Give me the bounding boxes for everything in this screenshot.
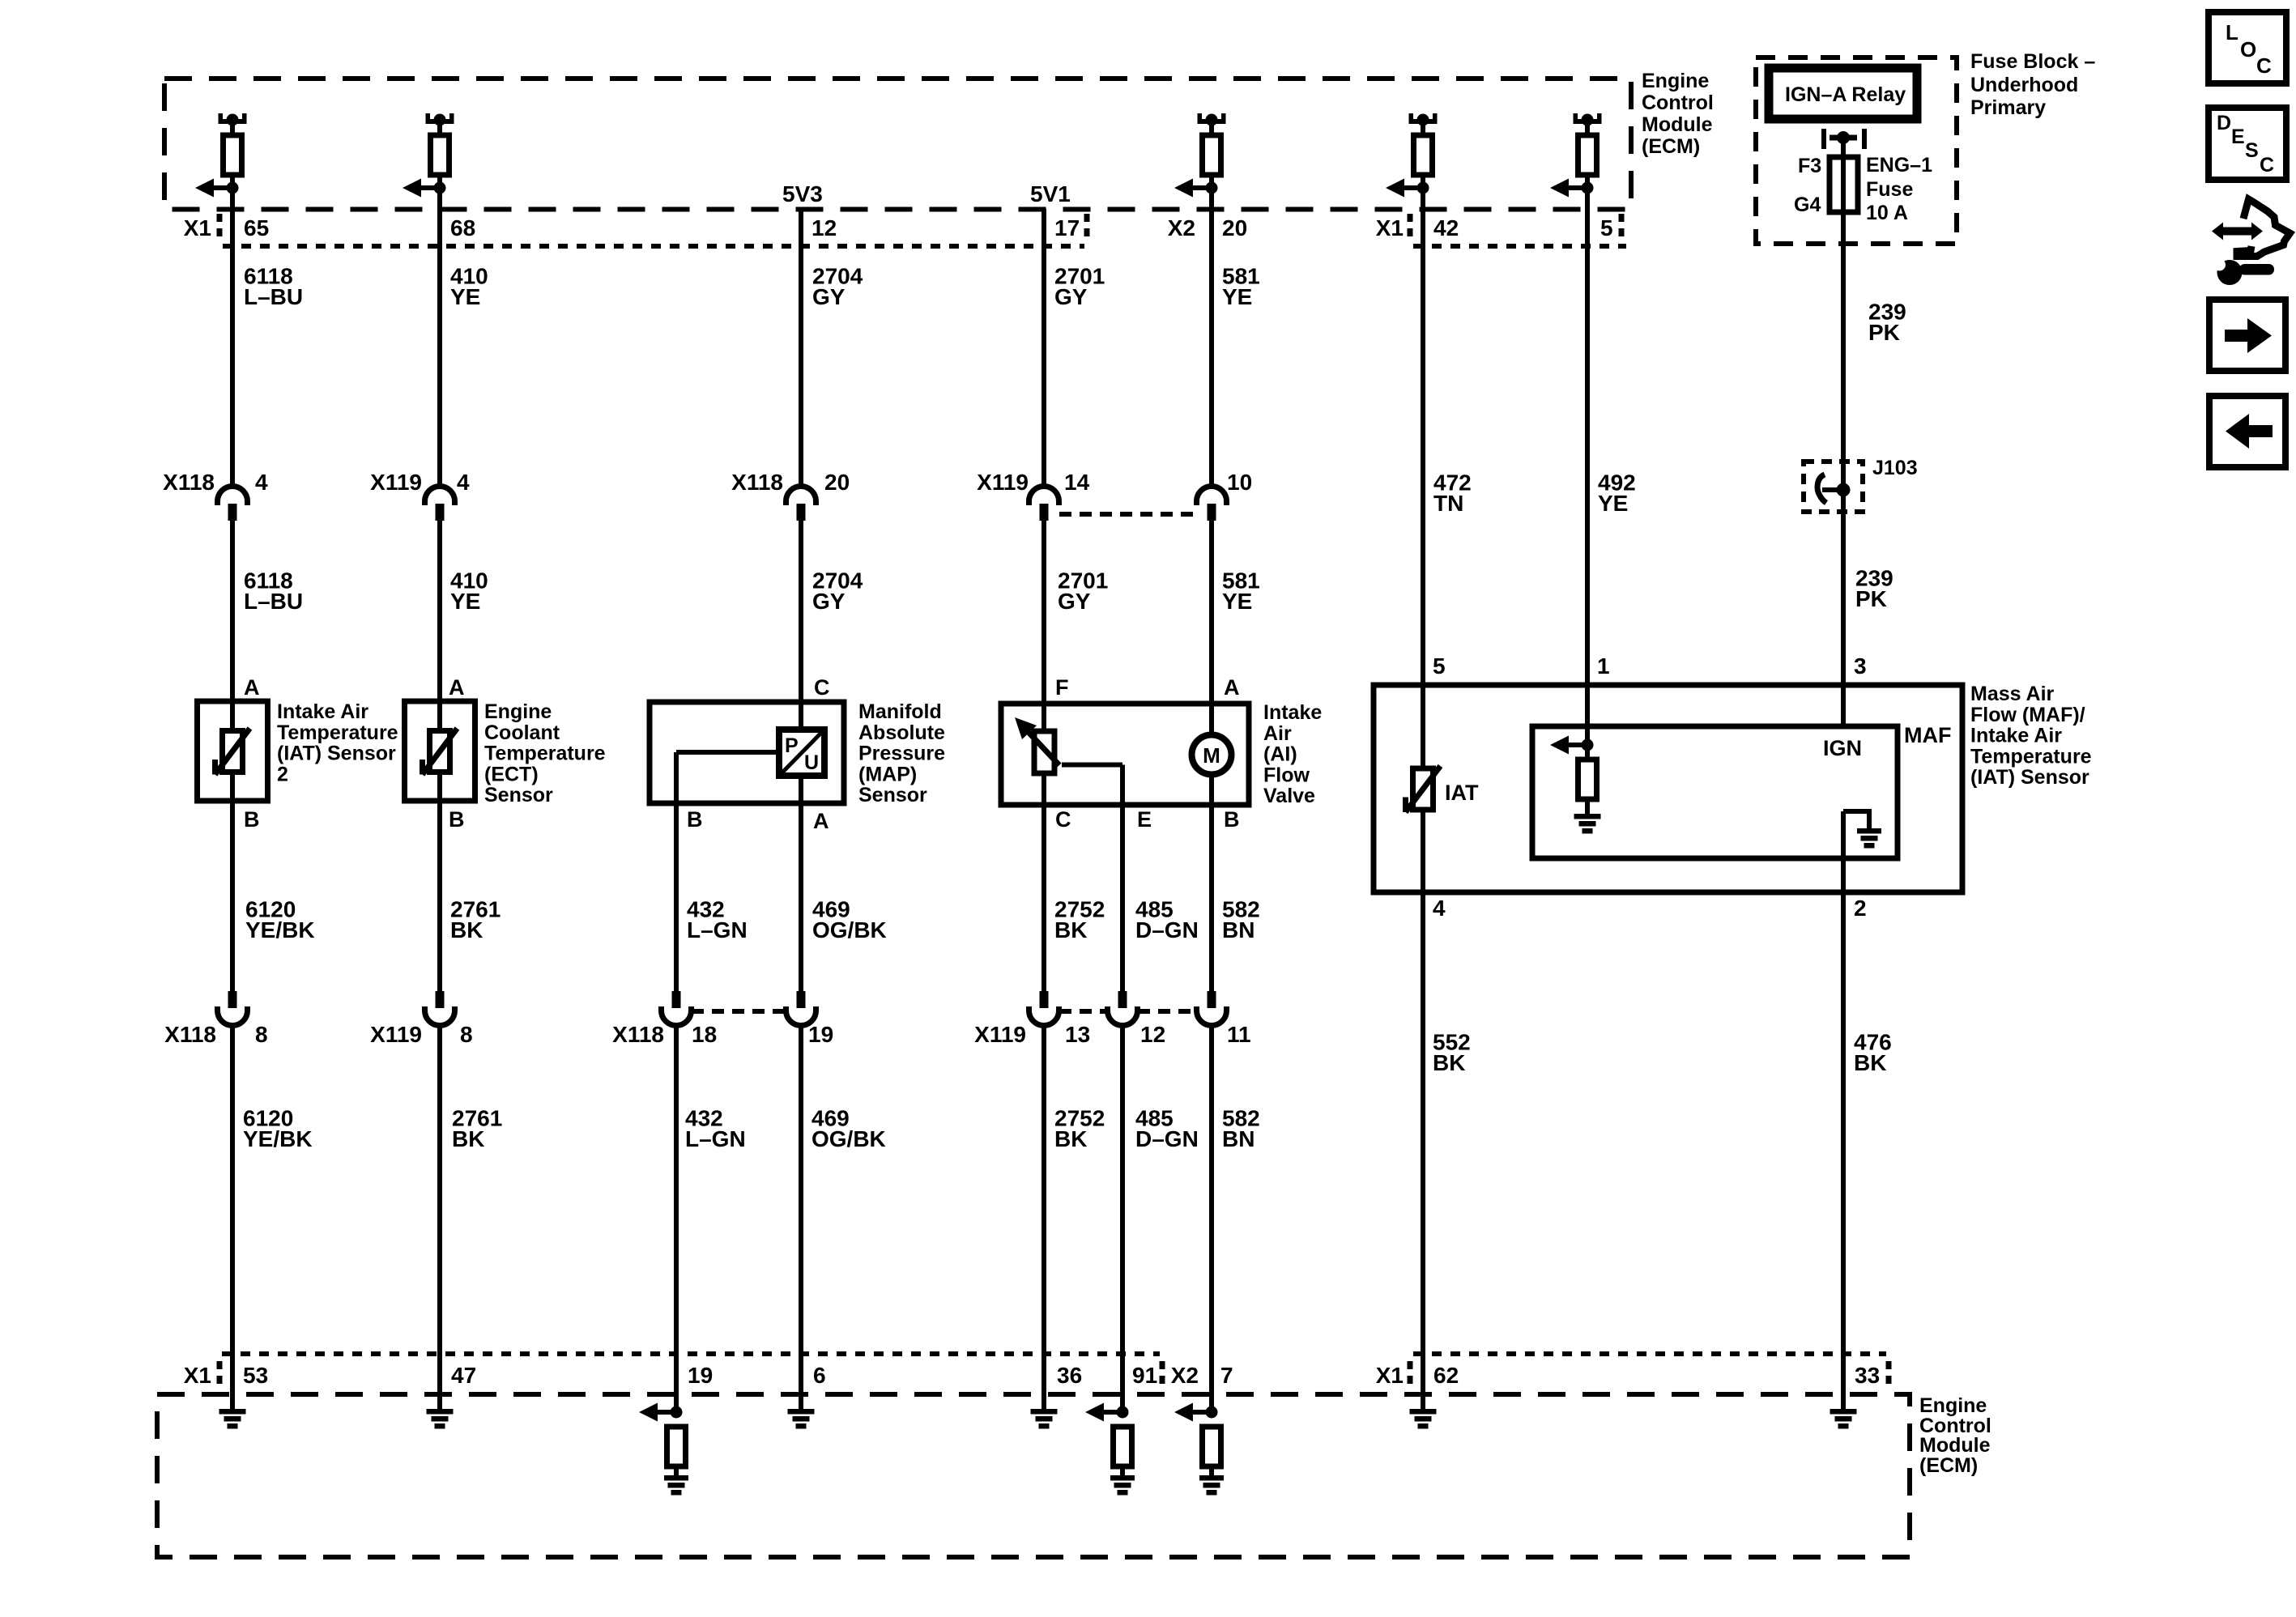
AI valve position sensor rect <box>1034 731 1054 773</box>
svg-text:BK: BK <box>1433 1050 1465 1075</box>
ground at ECM pin 6 <box>788 1409 815 1429</box>
MAF inner IGN box <box>1532 726 1898 858</box>
ECM pin 65 terminal fork <box>219 113 247 126</box>
wire 469 OG/BK: conn 19 to ECM pin 6 <box>799 1026 803 1412</box>
svg-text:Sensor: Sensor <box>858 784 927 806</box>
wire resistor to ground pin 19 <box>674 1466 679 1476</box>
svg-text:Control: Control <box>1642 91 1714 114</box>
inline connector X119-4 <box>425 487 455 521</box>
svg-text:Manifold: Manifold <box>858 700 942 723</box>
inline connector X118-18 <box>662 991 692 1026</box>
wire 492 YE: resistor to MAF IGN resistor <box>1585 175 1590 760</box>
ground below resistor pin 7 <box>1199 1475 1224 1496</box>
svg-text:12: 12 <box>1140 1022 1165 1047</box>
svg-text:Air: Air <box>1263 722 1292 745</box>
ground at ECM pin 33 <box>1830 1409 1857 1429</box>
svg-text:BK: BK <box>450 917 483 943</box>
service icon: double arrow, panel outline, wrench <box>2212 223 2263 240</box>
connector tick at x=2002 (top) <box>1619 214 1625 242</box>
connector tick at x=2332 (bottom) <box>1886 1361 1892 1389</box>
svg-text:(ECM): (ECM) <box>1642 135 1700 158</box>
svg-text:X1: X1 <box>184 215 211 240</box>
connector tick at x=1741 (bottom) <box>1408 1361 1413 1389</box>
off-page arrow at ECM pin 65 <box>195 179 239 198</box>
wire 410 YE: X119-4 to ECT sensor <box>437 521 442 731</box>
svg-text:12: 12 <box>811 215 837 240</box>
svg-text:(IAT) Sensor: (IAT) Sensor <box>1970 766 2089 789</box>
connector tick at x=1741 (top) <box>1408 214 1413 242</box>
svg-text:L: L <box>2226 20 2238 45</box>
svg-text:6: 6 <box>813 1363 826 1388</box>
J103 splice symbol <box>1817 474 1826 503</box>
svg-text:A: A <box>813 809 829 833</box>
thermistor IAT inside MAF <box>1406 766 1441 812</box>
J103 splice dashed box <box>1804 462 1863 512</box>
off-page arrow inside MAF IGN box <box>1550 736 1594 755</box>
svg-text:Absolute: Absolute <box>858 721 945 744</box>
svg-text:3: 3 <box>1854 653 1867 679</box>
svg-text:Fuse: Fuse <box>1866 178 1913 201</box>
wire 432 L-GN: X118-18 to ECM pin 19 <box>674 1026 679 1413</box>
connector X1 fine dotted line (top, pins 42-5) <box>1413 244 1626 249</box>
wire stub pin 65 <box>230 124 235 135</box>
off-page arrow at ECM pin 42 <box>1386 179 1429 198</box>
svg-text:C: C <box>2256 53 2272 78</box>
svg-text:GY: GY <box>1054 284 1088 309</box>
resistor inside ECM at pin 20 <box>1203 135 1221 175</box>
svg-text:Engine: Engine <box>1642 70 1709 92</box>
relay output junction dot <box>1837 131 1850 144</box>
wire MAP internal to pin B <box>676 750 779 755</box>
Intake Air Temperature (IAT) Sensor 2 box <box>198 701 268 801</box>
svg-text:47: 47 <box>451 1363 476 1388</box>
svg-text:TN: TN <box>1433 491 1463 516</box>
svg-text:53: 53 <box>243 1363 268 1388</box>
svg-text:C: C <box>1055 807 1071 832</box>
wire stub pin 20 <box>1209 124 1214 135</box>
svg-text:IAT: IAT <box>1445 781 1479 805</box>
wire 485 D-GN: AI valve E to conn 12 <box>1120 765 1125 992</box>
svg-text:(IAT) Sensor: (IAT) Sensor <box>277 743 396 765</box>
svg-text:BK: BK <box>1854 1050 1886 1075</box>
ground at ECM pin 36 <box>1031 1409 1058 1429</box>
resistor inside ECM at pin 42 <box>1414 135 1433 175</box>
wire 239 PK: relay through fuse and J103 to MAF inner box <box>1841 138 1846 726</box>
svg-text:17: 17 <box>1054 215 1080 240</box>
resistor inside ECM at pin 65 <box>224 135 242 175</box>
svg-text:(ECT): (ECT) <box>484 763 539 785</box>
svg-text:D: D <box>2217 112 2231 134</box>
inline connector conn-10 <box>1197 487 1227 521</box>
svg-text:GY: GY <box>1058 589 1091 614</box>
svg-text:B: B <box>1224 807 1240 832</box>
ECM pin 5 terminal fork <box>1574 113 1602 126</box>
ECM pin 20 terminal fork <box>1198 113 1226 126</box>
ground at ECM pin 53 <box>219 1409 246 1429</box>
off-page arrow at ECM pin 7 <box>1174 1403 1218 1422</box>
svg-text:B: B <box>449 807 465 832</box>
dashed link X118-18 to 19 <box>692 1009 786 1014</box>
svg-text:GY: GY <box>812 284 846 309</box>
resistor at ECM pin 19 <box>667 1427 686 1466</box>
wire resistor to ground pin 7 <box>1209 1466 1214 1476</box>
svg-text:10 A: 10 A <box>1866 202 1908 224</box>
svg-text:4: 4 <box>255 470 268 495</box>
svg-text:X2: X2 <box>1171 1363 1199 1388</box>
off-page arrow at ECM pin 19 <box>639 1403 683 1422</box>
svg-text:36: 36 <box>1057 1363 1082 1388</box>
inline connector conn-19 <box>786 991 816 1026</box>
off-page arrow at ECM pin 68 <box>403 179 446 198</box>
svg-text:S: S <box>2245 139 2259 162</box>
svg-text:E: E <box>2231 126 2245 148</box>
svg-text:YE: YE <box>1222 284 1252 309</box>
svg-text:PK: PK <box>1855 586 1887 611</box>
svg-text:8: 8 <box>460 1022 473 1047</box>
svg-text:8: 8 <box>255 1022 268 1047</box>
svg-text:4: 4 <box>1433 896 1446 921</box>
svg-text:Fuse Block –: Fuse Block – <box>1970 50 2095 73</box>
connector X1 fine dotted line (bottom, pins 53-91) <box>222 1351 1160 1356</box>
svg-text:2: 2 <box>1854 896 1867 921</box>
resistor at ECM pin 7 <box>1203 1427 1221 1466</box>
svg-text:BK: BK <box>1054 917 1087 943</box>
ground inside MAF IGN box <box>1574 814 1601 834</box>
off-page arrow at ECM pin 20 <box>1174 179 1218 198</box>
svg-text:Coolant: Coolant <box>484 721 560 744</box>
wire 581 YE: fork to resistor <box>1209 124 1214 135</box>
svg-text:U: U <box>804 751 819 774</box>
resistor at ECM pin 91 <box>1114 1427 1132 1466</box>
svg-text:Temperature: Temperature <box>1970 745 2092 768</box>
svg-text:5: 5 <box>1600 215 1613 240</box>
wire stub pin 68 <box>437 124 442 135</box>
wire 6120 YE/BK: X118-8 to ECM pin 53 <box>230 1026 235 1412</box>
svg-text:14: 14 <box>1064 470 1090 495</box>
svg-text:Intake: Intake <box>1263 701 1322 724</box>
connector tick at x=271 (bottom) <box>217 1361 223 1389</box>
svg-text:68: 68 <box>450 215 475 240</box>
wire 6120 YE/BK: IAT sensor to X118-8 <box>230 772 235 992</box>
svg-text:20: 20 <box>1222 215 1247 240</box>
svg-text:C: C <box>814 675 830 700</box>
dashed link 12 to 11 <box>1138 1009 1196 1014</box>
wire 469 OG/BK: MAP sensor A to conn 19 <box>799 776 803 991</box>
chassis ground inside MAF right <box>1857 828 1881 849</box>
svg-text:YE: YE <box>450 284 480 309</box>
connector tick at x=271 (top) <box>217 214 223 242</box>
resistor inside ECM at pin 68 <box>431 135 449 175</box>
thermistor IAT Sensor 2 <box>215 729 250 775</box>
svg-text:62: 62 <box>1433 1363 1459 1388</box>
svg-text:D–GN: D–GN <box>1135 1126 1199 1151</box>
MAP P/U transducer square <box>779 730 824 776</box>
wire resistor to ground pin 91 <box>1120 1466 1125 1476</box>
svg-text:L–GN: L–GN <box>685 1126 746 1151</box>
inline connector conn-11 <box>1197 991 1227 1026</box>
inline connector X118-20 <box>786 487 816 521</box>
svg-text:Temperature: Temperature <box>484 743 606 765</box>
svg-text:YE: YE <box>1222 589 1252 614</box>
wire 485 D-GN: conn 12 to ECM pin 91 <box>1120 1026 1125 1413</box>
wire 582 BN: conn 11 to ECM pin 7 <box>1209 1026 1214 1413</box>
svg-text:33: 33 <box>1855 1363 1880 1388</box>
svg-text:11: 11 <box>1227 1022 1251 1047</box>
right arrow icon box <box>2209 300 2285 371</box>
ground at ECM pin 62 <box>1410 1409 1437 1429</box>
svg-text:(AI): (AI) <box>1263 743 1297 766</box>
svg-text:A: A <box>244 675 260 700</box>
wire AI valve wiper to pin E <box>1062 763 1122 768</box>
wire 2701 GY: X119-14 to AI valve F <box>1042 521 1046 731</box>
LOC icon box <box>2209 12 2286 83</box>
svg-text:X118: X118 <box>164 1022 216 1047</box>
svg-text:PK: PK <box>1868 320 1900 345</box>
dashed link X119-14 to 10 <box>1059 512 1196 517</box>
svg-text:X119: X119 <box>974 1022 1026 1047</box>
wire 492 YE: fork to resistor <box>1585 124 1590 135</box>
dashed link X119-13 to 12 <box>1059 1009 1107 1014</box>
svg-text:G4: G4 <box>1794 194 1821 216</box>
svg-text:E: E <box>1137 807 1152 832</box>
svg-text:C: C <box>2260 154 2274 177</box>
svg-text:(MAP): (MAP) <box>858 763 917 785</box>
svg-text:Flow: Flow <box>1263 764 1310 786</box>
svg-text:Module: Module <box>1642 113 1713 136</box>
wire 6118 L-BU: fork to resistor <box>230 124 235 135</box>
wire 2752 BK: AI valve C to X119-13 <box>1042 773 1046 991</box>
off-page arrow at ECM pin 91 <box>1085 1403 1129 1422</box>
Fuse Block - Underhood Primary dashed box <box>1756 57 1957 244</box>
wire 2704 GY: X118-20 to MAP sensor <box>799 521 803 730</box>
wire 2761 BK: ECT sensor to X119-8 <box>437 772 442 992</box>
svg-text:20: 20 <box>824 470 850 495</box>
svg-text:Flow (MAF)/: Flow (MAF)/ <box>1970 704 2085 726</box>
ECM pin 68 terminal fork <box>426 113 454 126</box>
connector tick at x=1342 (top) <box>1084 214 1090 242</box>
svg-text:X1: X1 <box>1376 215 1404 240</box>
svg-text:X119: X119 <box>977 470 1029 495</box>
wire 582 BN: AI valve B to conn 11 <box>1209 777 1214 991</box>
svg-text:13: 13 <box>1065 1022 1090 1047</box>
inline connector X118-4 <box>218 487 248 521</box>
thermistor ECT Sensor <box>423 729 458 775</box>
inline connector X118-8 <box>218 991 248 1026</box>
svg-text:(ECM): (ECM) <box>1919 1454 1978 1477</box>
svg-text:B: B <box>244 807 260 832</box>
wire 410 YE: fork to resistor <box>437 124 442 135</box>
svg-text:P: P <box>785 734 799 757</box>
wire 552 BK: MAF pin 4 to ECM pin 62 <box>1421 810 1425 1411</box>
svg-text:Intake Air: Intake Air <box>277 700 368 723</box>
svg-text:BK: BK <box>1054 1126 1087 1151</box>
Engine Coolant Temperature (ECT) Sensor box <box>405 701 475 801</box>
ground below resistor pin 91 <box>1110 1475 1135 1496</box>
svg-text:5V1: 5V1 <box>1030 181 1071 206</box>
svg-text:19: 19 <box>688 1363 713 1388</box>
Engine Control Module (ECM) bottom dashed box <box>157 1394 1910 1557</box>
wire 472 TN: resistor to MAF IAT <box>1421 175 1425 768</box>
ground below resistor pin 19 <box>664 1475 688 1496</box>
svg-text:X1: X1 <box>184 1363 211 1388</box>
svg-text:F3: F3 <box>1798 155 1821 177</box>
wire 2752 BK: X119-13 to ECM pin 36 <box>1042 1026 1046 1412</box>
svg-text:IGN–A Relay: IGN–A Relay <box>1785 83 1906 106</box>
inline connector conn-12 <box>1108 991 1138 1026</box>
svg-text:F: F <box>1055 675 1069 700</box>
fuse F3 ENG-1 10A <box>1830 157 1858 212</box>
wire 410 YE: resistor to X119-4 <box>437 175 442 487</box>
svg-text:2: 2 <box>277 763 288 785</box>
svg-text:Mass Air: Mass Air <box>1970 683 2055 705</box>
Manifold Absolute Pressure (MAP) Sensor box <box>650 702 844 803</box>
wire 581 YE: resistor to conn 10 <box>1209 175 1214 487</box>
wire 2704 GY: ECM pin 12 to X118-20 <box>799 209 803 487</box>
svg-text:5: 5 <box>1433 653 1446 679</box>
resistor inside ECM at pin 5 <box>1578 135 1597 175</box>
svg-text:Engine: Engine <box>484 700 552 723</box>
svg-text:OG/BK: OG/BK <box>812 917 887 943</box>
svg-text:Primary: Primary <box>1970 96 2046 119</box>
AI valve motor M <box>1192 735 1232 775</box>
svg-text:L–GN: L–GN <box>687 917 748 943</box>
DESC icon box <box>2209 108 2286 180</box>
svg-text:65: 65 <box>244 215 269 240</box>
svg-text:BK: BK <box>452 1126 484 1151</box>
IGN-A Relay box <box>1769 68 1917 119</box>
svg-text:M: M <box>1203 743 1220 768</box>
ECM pin 42 terminal fork <box>1409 113 1438 126</box>
svg-text:A: A <box>1224 675 1240 700</box>
svg-text:O: O <box>2240 37 2256 62</box>
wire 2761 BK: X119-8 to ECM pin 47 <box>437 1026 442 1412</box>
svg-text:42: 42 <box>1433 215 1459 240</box>
svg-text:YE: YE <box>1598 491 1628 516</box>
off-page arrow at ECM pin 5 <box>1550 179 1594 198</box>
svg-text:YE: YE <box>450 589 480 614</box>
inline connector X119-8 <box>425 991 455 1026</box>
svg-text:X118: X118 <box>612 1022 664 1047</box>
resistor inside MAF IGN box <box>1578 760 1597 799</box>
svg-text:OG/BK: OG/BK <box>811 1126 886 1151</box>
wire 432 L-GN: MAP B to X118-18 <box>674 752 679 991</box>
wire 472 TN: fork to resistor <box>1421 124 1425 135</box>
svg-text:YE/BK: YE/BK <box>243 1126 313 1151</box>
svg-text:X1: X1 <box>1376 1363 1404 1388</box>
svg-text:Sensor: Sensor <box>484 784 553 806</box>
wire 2701 GY: ECM pin 17 to X119-14 <box>1042 209 1046 487</box>
Engine Control Module (ECM) top dashed box <box>164 79 1631 210</box>
Mass Air Flow (MAF)/IAT Sensor outer box <box>1374 685 1962 892</box>
AI valve wiper arrow <box>1024 727 1059 765</box>
svg-text:X119: X119 <box>370 470 422 495</box>
svg-text:A: A <box>449 675 465 700</box>
svg-text:IGN: IGN <box>1823 736 1862 760</box>
wire 581 YE: conn 10 to AI valve motor <box>1209 521 1214 732</box>
svg-text:4: 4 <box>457 470 470 495</box>
svg-text:X118: X118 <box>163 470 215 495</box>
svg-text:L–BU: L–BU <box>244 284 303 309</box>
wire 6118 L-BU: X118-4 to IAT sensor <box>230 521 235 731</box>
svg-text:10: 10 <box>1227 470 1252 495</box>
connector X1 fine dotted line (bottom, pins 62-33) <box>1413 1351 1886 1356</box>
wire stub pin 42 <box>1421 124 1425 135</box>
svg-text:L–BU: L–BU <box>244 589 303 614</box>
svg-text:Intake Air: Intake Air <box>1970 725 2062 747</box>
svg-text:ENG–1: ENG–1 <box>1866 154 1932 177</box>
svg-text:Pressure: Pressure <box>858 743 945 765</box>
svg-text:Underhood: Underhood <box>1970 74 2078 96</box>
wire MAF resistor to internal ground <box>1585 799 1590 814</box>
svg-text:Temperature: Temperature <box>277 721 398 744</box>
svg-text:BN: BN <box>1222 1126 1254 1151</box>
svg-text:J103: J103 <box>1872 457 1918 479</box>
inline connector X119-13 <box>1029 991 1059 1026</box>
svg-text:19: 19 <box>808 1022 833 1047</box>
svg-text:X118: X118 <box>731 470 783 495</box>
svg-text:5V3: 5V3 <box>782 181 823 206</box>
ground at ECM pin 47 <box>427 1409 454 1429</box>
relay contact bracket <box>1824 129 1864 149</box>
svg-text:18: 18 <box>692 1022 717 1047</box>
Intake Air (AI) Flow Valve box <box>1001 704 1249 805</box>
connector tick at x=1435 (bottom) <box>1160 1361 1165 1389</box>
wire 476 BK: MAF ground hook to ECM pin 33 <box>1841 811 1846 1411</box>
svg-text:B: B <box>687 807 703 832</box>
svg-text:D–GN: D–GN <box>1135 917 1199 943</box>
wire 6118 L-BU: resistor to X118-4 <box>230 175 235 487</box>
svg-text:91: 91 <box>1132 1363 1157 1388</box>
svg-text:X2: X2 <box>1168 215 1195 240</box>
ground hook branch from MAF pin 3 wire <box>1843 809 1869 814</box>
connector X1 fine dotted line (top, pins 65-17) <box>223 244 1084 249</box>
svg-text:GY: GY <box>812 589 846 614</box>
svg-text:BN: BN <box>1222 917 1254 943</box>
wire stub pin 5 <box>1585 124 1590 135</box>
svg-text:YE/BK: YE/BK <box>245 917 315 943</box>
svg-text:7: 7 <box>1220 1363 1233 1388</box>
svg-text:Valve: Valve <box>1263 785 1315 807</box>
svg-text:X119: X119 <box>370 1022 422 1047</box>
inline connector X119-14 <box>1029 487 1059 521</box>
left arrow icon box <box>2209 396 2285 467</box>
svg-text:MAF: MAF <box>1904 723 1951 747</box>
svg-text:1: 1 <box>1597 653 1610 679</box>
